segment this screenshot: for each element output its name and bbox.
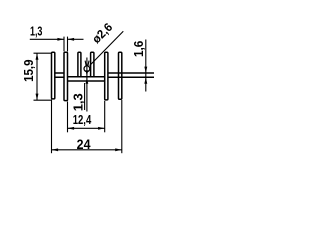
web left outer section (top+bottom lines) — [55, 73, 64, 77]
dim 24: arrow left — [52, 148, 59, 151]
screw channel jaws — [85, 61, 89, 67]
dim 12.4: arrow left — [68, 127, 75, 130]
dim 1.3 top: dimension line left segment — [30, 38, 64, 40]
leader o2.6 — [90, 31, 124, 65]
fin F2 (fin + leg) — [64, 52, 68, 100]
dim 24: arrow right — [115, 148, 122, 151]
dim 15.9: arrow down — [36, 94, 39, 101]
svg-text:1,3: 1,3 — [70, 93, 85, 111]
hole circle o2.6 — [84, 66, 90, 72]
dim 1.3 bottom: arrow up — [86, 78, 89, 84]
dim 1.6: dimension line — [145, 40, 147, 92]
dim 15.9: extension line top — [34, 52, 52, 54]
svg-text:15,9: 15,9 — [22, 59, 37, 82]
web right outer section + 1,6 extension lines — [108, 73, 154, 77]
svg-text:12,4: 12,4 — [73, 114, 92, 128]
dim 15.9: arrow up — [36, 53, 39, 60]
dim 12.4: dimension line — [68, 127, 105, 129]
dim 24: extension lines — [51, 100, 53, 154]
svg-text:1,6: 1,6 — [131, 40, 146, 57]
fin F6 (right outer fin + leg) — [119, 52, 122, 99]
dim 1.3 bottom: arrow down — [86, 70, 89, 76]
dim 1.3 bottom: dimension line vertical — [86, 58, 88, 112]
dim 12.4: extension lines — [67, 102, 69, 133]
dim 1.6: arrow up to web bottom — [144, 77, 147, 83]
fin F5 (fin + leg) — [105, 52, 108, 100]
dim 1.3 top: extension lines — [63, 37, 65, 52]
svg-text:1,3: 1,3 — [30, 25, 42, 39]
dim 1.6: arrow down to web top — [144, 67, 147, 73]
dim 15.9: dimension line — [36, 53, 38, 100]
dim 24: dimension line — [52, 149, 122, 151]
fin F3 (upper fin only) — [78, 52, 81, 76]
svg-text:24: 24 — [77, 136, 92, 152]
dim 1.3 top: arrow pointing right — [57, 38, 64, 41]
dim 1.3 top: right arrow tail — [68, 38, 84, 40]
dim 1.3 top: arrow pointing left — [68, 38, 75, 41]
slot wall extension line — [84, 83, 86, 110]
dim 12.4: arrow right — [98, 127, 105, 130]
fin F4 (upper fin only) — [91, 52, 94, 76]
dim 15.9: extension line bottom — [34, 99, 52, 101]
web center section — [68, 77, 105, 81]
fin F1 (left outer fin + leg) — [52, 52, 55, 99]
